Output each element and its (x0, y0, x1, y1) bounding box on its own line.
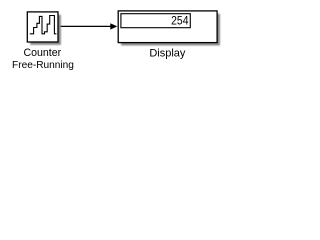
arrowhead (110, 23, 117, 29)
wire (58, 25, 111, 27)
counter block shadow (30, 15, 61, 45)
display block shadow (121, 14, 220, 46)
svg-text:Counter: Counter (23, 47, 61, 59)
svg-text:254: 254 (171, 15, 188, 28)
display inner value box (121, 14, 190, 28)
display block (118, 11, 217, 43)
counter block Counter Free-Running (27, 12, 58, 42)
counter staircase icon (30, 16, 57, 34)
svg-text:Free-Running: Free-Running (12, 60, 74, 71)
svg-text:Display: Display (149, 48, 186, 60)
